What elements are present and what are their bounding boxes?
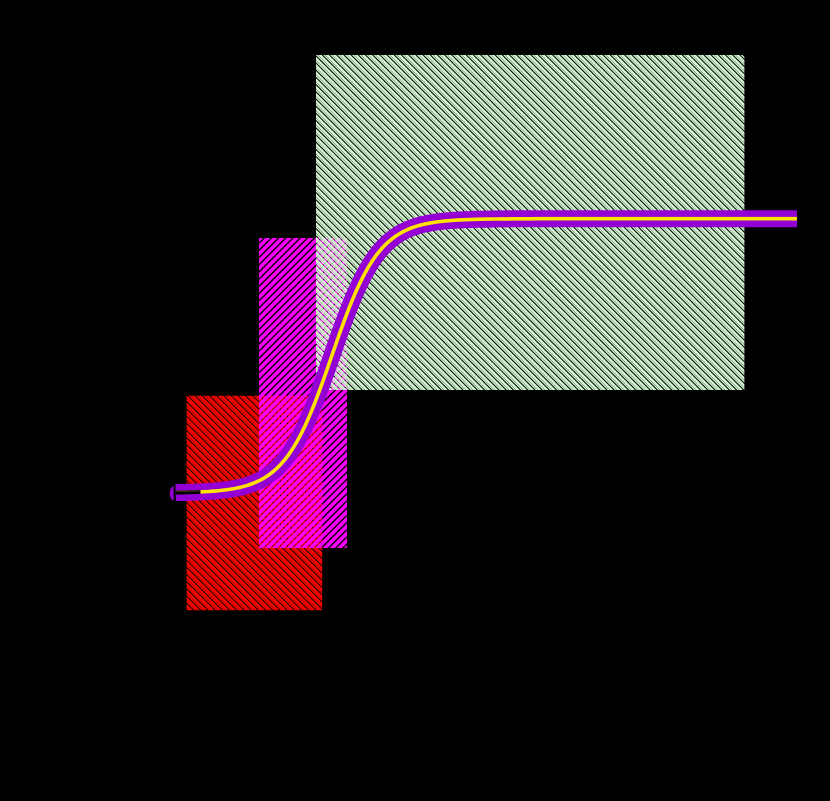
- black stub segment at curve start: [176, 490, 201, 495]
- yellow center line of curve: [201, 219, 798, 492]
- dark-olive sliver along stub top edge: [176, 490, 200, 492]
- magenta hatched rectangle: [0, 232, 663, 554]
- purple outline of sigmoid curve: [176, 219, 797, 493]
- red hatched rectangle: [0, 390, 540, 617]
- green hatched rectangle: [0, 49, 830, 396]
- detached round cap blob at left end: [170, 486, 174, 501]
